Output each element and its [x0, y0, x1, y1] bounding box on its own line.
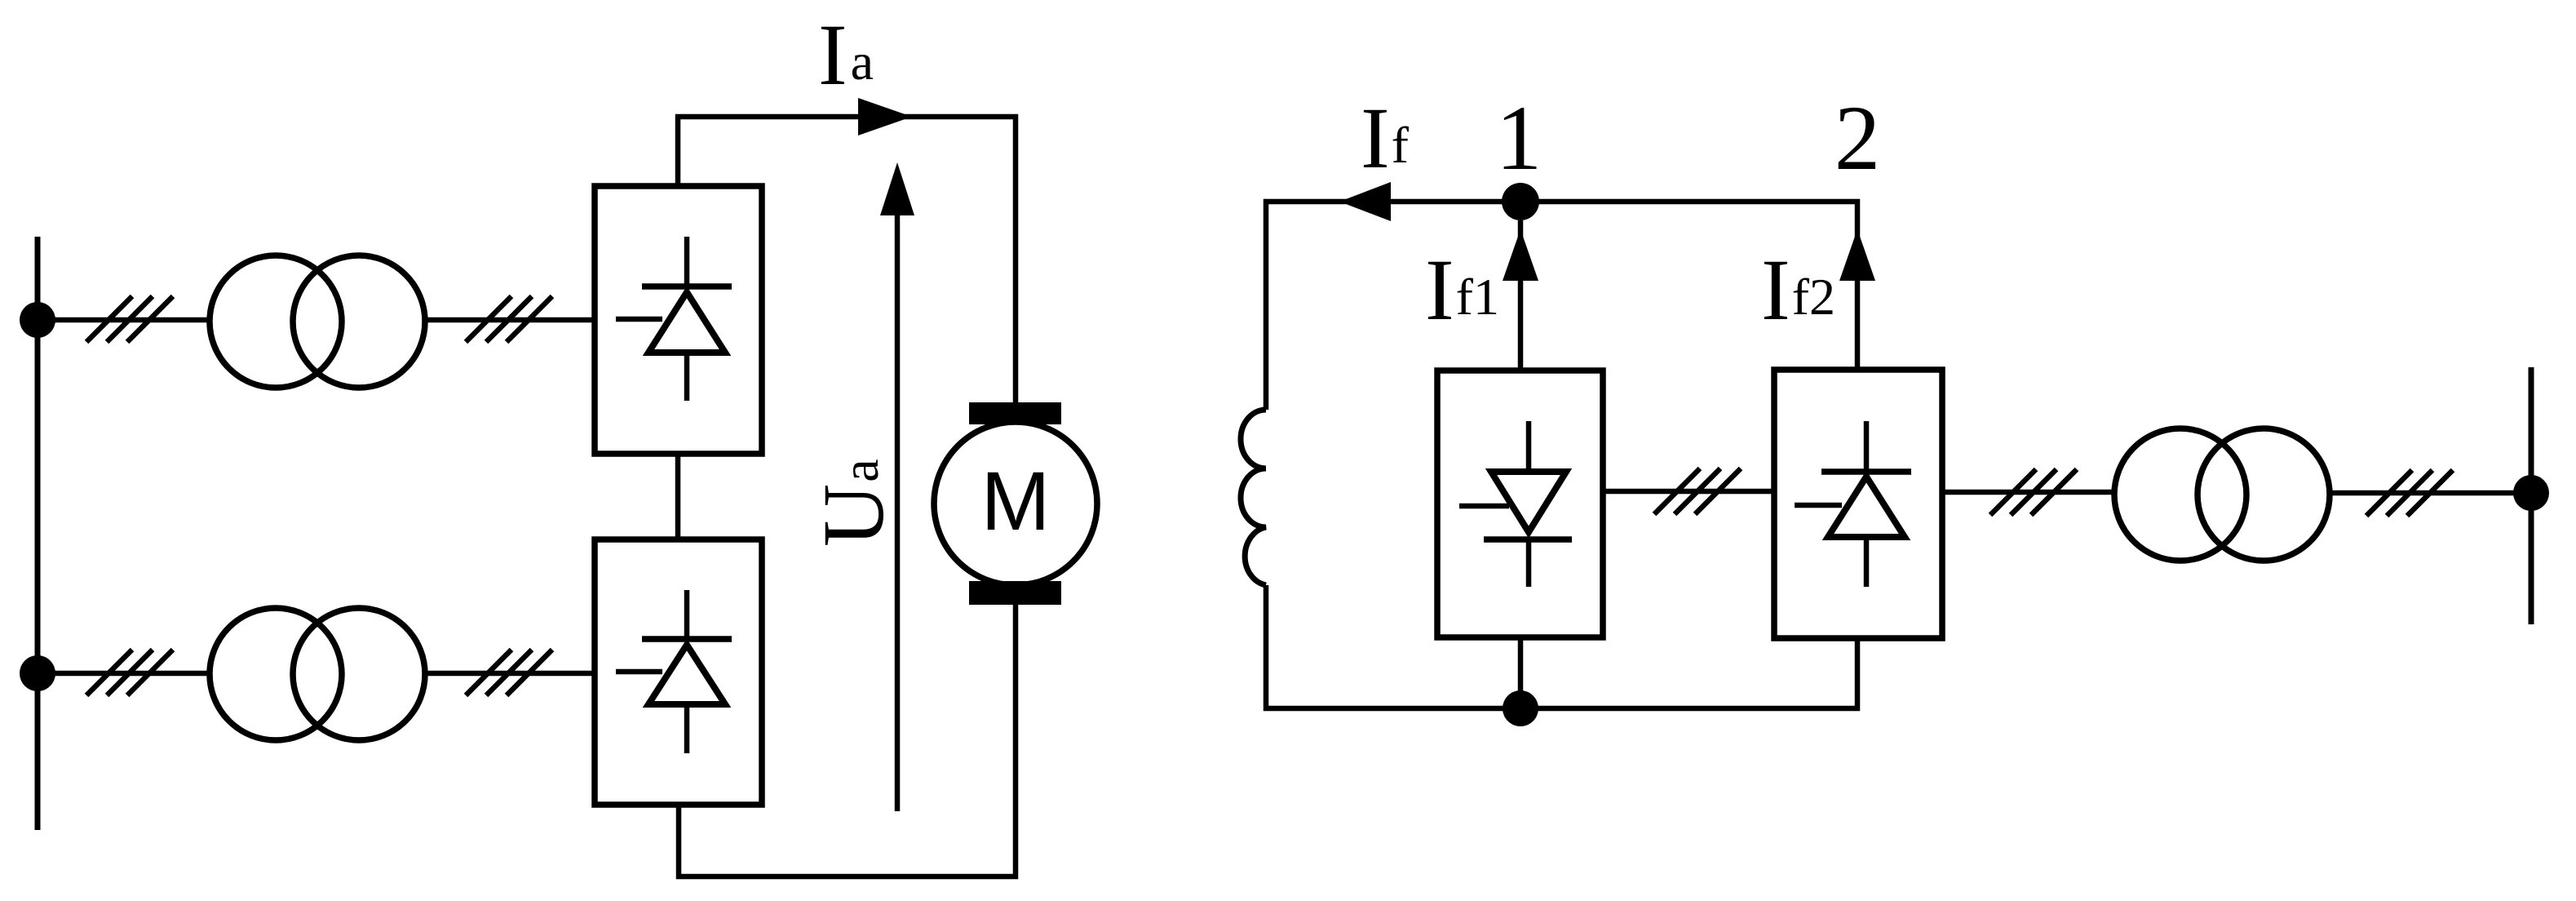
wire: UV1 to UV2 series link	[675, 454, 681, 539]
wire: bus to transformer T1	[38, 317, 210, 323]
node 1 junction dot	[1502, 183, 1539, 220]
If2 arrowhead	[1839, 229, 1875, 281]
label Ia	[818, 7, 874, 104]
label If	[1361, 91, 1410, 187]
thyristor converter UV3 (field, reverse block 1)	[1437, 371, 1603, 637]
wire: UV4 to transformer T3	[1942, 490, 2114, 495]
svg-text:M: M	[981, 455, 1051, 548]
junction node: right bus tap	[2513, 475, 2549, 511]
wire: inductor top to node 1	[1266, 202, 1520, 410]
svg-text:If1: If1	[1425, 242, 1499, 339]
label node 1	[1496, 87, 1543, 189]
three-phase slash marks (bus to T2)	[86, 650, 173, 695]
field winding inductor L	[1241, 410, 1266, 585]
thyristor converter UV2 (armature, block 2)	[595, 539, 762, 805]
Ua measurement arrow	[880, 162, 914, 811]
field bottom junction dot	[1503, 690, 1538, 726]
right AC bus bar	[2529, 367, 2534, 624]
svg-text:1: 1	[1496, 87, 1543, 189]
svg-text:If2: If2	[1761, 242, 1835, 339]
three-phase slash marks (T3 to right bus)	[2366, 470, 2453, 516]
svg-text:2: 2	[1835, 87, 1881, 189]
svg-text:Ua: Ua	[806, 459, 902, 547]
junction node: left bus top tap	[20, 302, 55, 338]
three-phase slash marks (T1 to UV1)	[466, 296, 552, 342]
label If2	[1761, 242, 1835, 339]
wire: bottom node to UV4 bottom lead	[1520, 638, 1857, 708]
label Ua (rotated)	[806, 459, 902, 547]
three-phase slash marks (UV4 to T3)	[1990, 469, 2077, 515]
wire: T3 to right bus	[2330, 490, 2531, 496]
three-phase slash marks (UV3 to UV4)	[1654, 468, 1741, 514]
wire: node 1 to node 2 corner down to UV4	[1520, 202, 1857, 370]
transformer T3 (field feeder)	[2114, 428, 2330, 561]
If arrowhead	[1339, 182, 1391, 221]
svg-text:Ia: Ia	[818, 7, 874, 104]
three-phase slash marks (bus to T1)	[86, 296, 173, 342]
wire/arrow If1: UV3 top lead	[1503, 220, 1538, 371]
wire: UV3 bottom lead	[1518, 637, 1524, 708]
armature DC wire (bottom return)	[679, 605, 1016, 877]
label If1	[1425, 242, 1499, 339]
wire: inductor bottom to field bottom node	[1266, 585, 1520, 708]
wire: bus to transformer T2	[38, 671, 210, 677]
svg-text:If: If	[1361, 91, 1410, 187]
left AC bus bar	[35, 237, 41, 830]
wire: T1 to converter UV1	[423, 317, 595, 323]
armature DC wire (top, Ia path)	[678, 117, 1016, 402]
thyristor converter UV1 (armature, block 1)	[595, 186, 762, 454]
Ia arrowhead	[858, 98, 912, 135]
transformer T1 (armature top feeder)	[210, 255, 425, 388]
junction node: left bus bottom tap	[20, 655, 55, 691]
label node 2	[1835, 87, 1881, 189]
thyristor converter UV4 (field, forward block 2)	[1774, 370, 1942, 638]
motor M	[934, 402, 1097, 605]
three-phase slash marks (T2 to UV2)	[466, 650, 552, 695]
wire: UV3 to UV4 AC link	[1603, 489, 1774, 495]
transformer T2 (armature bottom feeder)	[210, 608, 425, 740]
wire: T2 to converter UV2	[423, 671, 595, 677]
